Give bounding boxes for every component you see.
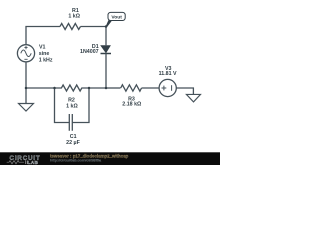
svg-text:1 kHz: 1 kHz xyxy=(39,58,53,64)
wire R2 right node to node B xyxy=(89,87,106,89)
capacitor C1 left branch xyxy=(55,88,70,123)
diode D1 xyxy=(100,45,111,53)
logo CircuitLab capacitor glyph xyxy=(26,160,28,164)
svg-text:V1: V1 xyxy=(39,45,46,51)
footer bar xyxy=(0,152,220,165)
wire bus V1 to R2 left node xyxy=(26,87,55,89)
wire R1 to node Vout xyxy=(81,26,107,28)
svg-text:sine: sine xyxy=(39,51,50,57)
wire R3 to V3 plus xyxy=(142,87,160,89)
wire V1 minus terminal to bus xyxy=(25,62,27,88)
voltage source V1 xyxy=(17,45,34,62)
junction R2 right xyxy=(88,87,91,90)
capacitor C1 xyxy=(69,114,72,131)
ground GND1 xyxy=(19,104,34,112)
wire node B to R3 xyxy=(106,87,121,89)
junction R2 left xyxy=(53,87,56,90)
junction node Vout xyxy=(105,25,108,28)
net flag Vout xyxy=(106,12,126,27)
ground GND2 xyxy=(186,94,200,102)
junction V1 bottom xyxy=(25,87,28,90)
svg-text:Vout: Vout xyxy=(111,15,122,21)
capacitor C1 right branch xyxy=(72,88,89,123)
logo CircuitLab resistor squiggle xyxy=(7,161,24,164)
resistor R1 xyxy=(60,24,81,30)
ground GND1 stub xyxy=(25,88,27,104)
resistor R2 xyxy=(55,85,90,91)
wire V3 minus to ground GND2 xyxy=(176,88,193,94)
svg-text:http://circuitlab.com/c6t98f5a: http://circuitlab.com/c6t98f5a xyxy=(50,158,102,162)
resistor R3 xyxy=(121,85,142,91)
svg-text:1 kΩ: 1 kΩ xyxy=(68,13,80,19)
svg-text:22 µF: 22 µF xyxy=(66,140,80,146)
junction node B (D1 cathode / R3) xyxy=(105,87,108,90)
svg-text:LAB: LAB xyxy=(28,160,39,165)
svg-text:1N4007: 1N4007 xyxy=(80,49,99,55)
wire node Vout to D1 anode xyxy=(105,27,107,46)
wire D1 cathode to node B xyxy=(105,54,107,89)
svg-text:2.18 kΩ: 2.18 kΩ xyxy=(122,102,142,108)
svg-text:1 kΩ: 1 kΩ xyxy=(66,103,78,109)
wire V1 plus terminal to R1 xyxy=(26,27,60,45)
voltage source V3 xyxy=(159,79,176,96)
svg-text:11.81 V: 11.81 V xyxy=(159,71,177,77)
